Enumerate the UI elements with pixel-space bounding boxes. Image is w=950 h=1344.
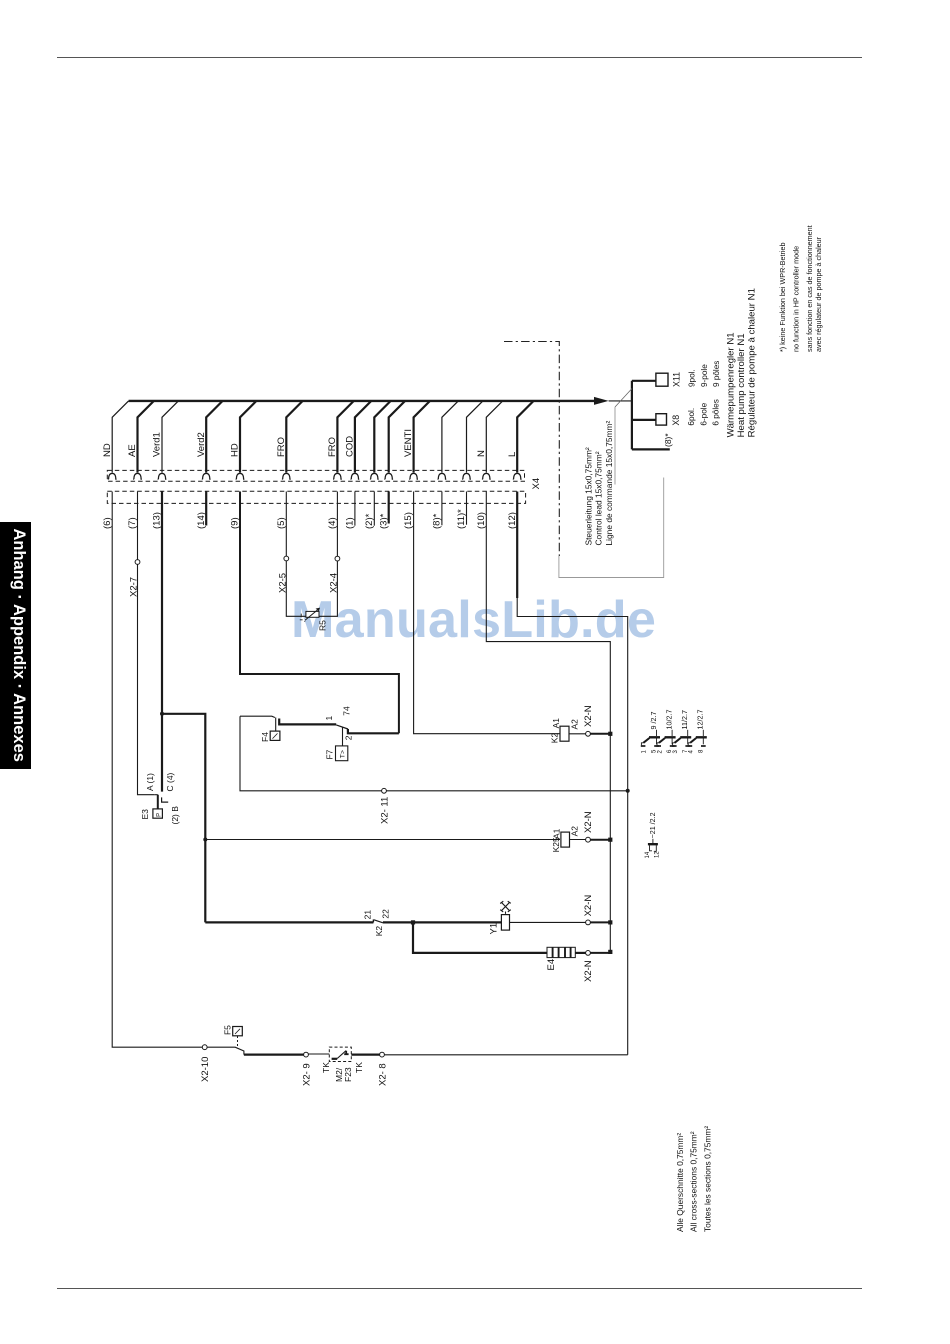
terminal X2-7 [135,560,140,565]
terminal clamp arc (1) [351,473,360,479]
terminal clamp arc (5) [282,473,291,479]
svg-text:X2-N: X2-N [583,895,594,917]
svg-text:ManualsLib.de: ManualsLib.de [291,591,656,649]
junction on wire (13) [160,712,164,716]
svg-text:*) keine Funktion bei WPR-Betr: *) keine Funktion bei WPR-Betrieb [778,243,787,352]
wire (6) from strip down to X2-10 row [112,492,205,1048]
relay coil K2 body [560,726,569,741]
svg-text:Wärmepumpenregler N1: Wärmepumpenregler N1 [726,332,737,437]
svg-text:2: 2 [657,750,663,754]
wire Y1 to X2-N [510,921,586,923]
terminal X2-N (K2) [586,731,591,736]
svg-text:8: 8 [698,749,704,753]
svg-text:1: 1 [324,716,334,721]
fuse F5 body [233,1027,243,1036]
thermostat F7 contact blade [336,725,348,729]
terminal clamp arc (10) [482,473,491,479]
svg-text:10/2.7: 10/2.7 [664,710,673,730]
svg-text:(1): (1) [345,517,356,529]
wire (8)* stub [441,492,443,526]
controller dash-dot boundary [504,342,559,557]
wire (4) above strip with fan diagonal [337,401,353,473]
thick link X2-N Y1 to N feeder [590,921,610,923]
svg-text:Steuerleitung 15x0,75mm²: Steuerleitung 15x0,75mm² [584,447,594,545]
svg-text:C (4): C (4) [165,772,175,791]
svg-text:A2: A2 [569,826,579,837]
wire (12) L thick part [516,492,518,599]
wire K25 coil to X2-N [570,839,586,841]
thermostat F7 body [336,746,348,761]
svg-text:K25: K25 [551,837,561,852]
svg-text:4: 4 [689,750,695,754]
wire (15) above strip with fan diagonal [414,401,430,473]
terminal clamp arc (6) [108,473,117,479]
wire (10) N feeder [486,492,610,952]
svg-text:Verd2: Verd2 [196,432,207,457]
svg-text:F7: F7 [324,749,334,759]
wire (6) above strip with fan diagonal [112,401,128,473]
svg-text:(8)*: (8)* [663,433,673,447]
terminal X2-10 [202,1045,207,1050]
svg-text:Alle Querschnitte 0,75mm²: Alle Querschnitte 0,75mm² [675,1133,685,1232]
wire (2)* above strip with fan diagonal [374,401,390,473]
contact cross-ref 12/2.7 [688,710,707,754]
connector bracket [631,381,633,450]
svg-text:E3: E3 [140,809,150,820]
wire X2-9 to motor box [308,1053,329,1055]
svg-text:AE: AE [127,444,138,457]
svg-text:3: 3 [673,750,679,754]
svg-text:N: N [476,450,487,457]
motor M2/F23 dashed box [329,1047,351,1061]
wire (5) FRO to X2-5 [286,492,306,617]
wire (12) L thin jog and feeder [517,598,628,1055]
wire (14) stub [205,492,207,526]
top rule [57,57,862,59]
wire motor box to X2-8 (thick) [351,1053,379,1055]
wire (1) above strip with fan diagonal [355,401,371,473]
wire X2-10 to F5 step [207,1047,244,1054]
svg-text:E4: E4 [546,959,557,971]
svg-text:9-pole: 9-pole [700,364,709,387]
svg-text:X2- 11: X2- 11 [379,797,390,824]
terminal clamp arc (8)* [438,473,447,479]
terminal clamp arc (2)* [370,473,379,479]
svg-text:22: 22 [381,909,391,919]
svg-text:9pol.: 9pol. [688,369,697,387]
svg-text:12: 12 [655,851,661,858]
wire to X2-11 row [240,716,628,791]
terminal clamp arc (12) [513,473,522,479]
junction K2 on N feeder [608,732,612,736]
svg-text:Régulateur de pompe à chaleur: Régulateur de pompe à chaleur N1 [747,288,758,437]
svg-text:TK: TK [354,1062,364,1073]
terminal X2-N (E4) [586,951,591,956]
wire thin from node to fuse F4 gap [240,716,275,717]
terminal X2-8 [380,1052,385,1057]
valve symbol above Y1 [500,901,511,914]
svg-text:2: 2 [344,735,354,740]
svg-text:FRO: FRO [327,437,338,457]
terminal X2-N (Y1) [586,920,591,925]
svg-text:avec régulateur de pompe à cha: avec régulateur de pompe à chaleur [814,236,823,352]
svg-text:(7): (7) [127,517,138,529]
svg-text:−21 /2.2: −21 /2.2 [648,812,657,838]
svg-text:F4: F4 [260,732,270,742]
svg-text:(11)*: (11)* [456,509,467,529]
contact cross-ref 9 /2.7 [641,712,660,754]
wire (14) above strip with fan diagonal [206,401,222,473]
svg-text:F23: F23 [343,1067,353,1082]
wire (7) from strip to X2-7 and E3 [138,492,155,795]
wire (15) VENTI to K2 coil [414,492,560,734]
resistor R5 arrow [305,608,320,620]
svg-text:Y1: Y1 [489,923,500,935]
solenoid valve Y1 body [501,915,509,931]
svg-text:ND: ND [102,443,113,457]
junction Y1/E4 branch [411,920,415,924]
wire (9) HD down [240,492,399,734]
svg-text:A2: A2 [570,719,580,730]
svg-text:VENTI: VENTI [403,429,414,457]
svg-text:P: P [157,813,163,817]
junction K25 feed tap [203,838,207,842]
wire (11)* above strip with fan diagonal [467,401,483,473]
wire R5 to X2-4 [319,492,337,617]
terminal X2-4 [335,556,340,561]
svg-text:1: 1 [642,750,648,754]
svg-text:Toutes les sections 0,75mm²: Toutes les sections 0,75mm² [702,1126,712,1232]
terminal X2-9 [304,1052,309,1057]
svg-text:12/2.7: 12/2.7 [696,710,705,730]
wire junction to Y1 [413,921,501,923]
svg-text:X2-N: X2-N [583,705,594,727]
svg-text:T>: T> [340,750,347,758]
terminal clamp arc (13) [158,473,167,479]
thick step after F7 contact [348,729,399,733]
resistor R5 body [306,611,319,617]
svg-text:6-pole: 6-pole [699,402,708,425]
wire (13) Verd1 down to junction [161,492,163,792]
branch from (13) junction to vertical feeder [162,714,205,923]
svg-text:(6): (6) [102,517,113,529]
thick link X2-N K25 to N feeder [590,839,610,841]
svg-text:9 pôles: 9 pôles [712,361,721,387]
wire E4 to X2-N [575,952,585,954]
terminal X2-11 [382,788,387,793]
thick link F4 to F7 contact [279,719,336,725]
svg-text:6pol.: 6pol. [687,408,696,426]
wire (3)* stub [388,492,390,524]
wire (9) above strip with fan diagonal [240,401,256,473]
branch down to E4 row [413,922,547,953]
stub to X8 [632,419,656,421]
heater E4 body [547,947,575,957]
contact cross-ref 11/2.7 [672,710,691,753]
svg-text:(2) B: (2) B [170,806,180,825]
svg-text:X2-N: X2-N [583,811,594,833]
svg-text:(4): (4) [327,517,338,529]
svg-text:sans fonction en cas de foncti: sans fonction en cas de fonctionnement [805,225,814,352]
terminal clamp arc (7) [133,473,142,479]
svg-text:F5: F5 [222,1025,232,1035]
wire K25 feed [205,839,560,841]
svg-text:K2: K2 [550,733,560,744]
svg-text:X8: X8 [671,415,681,426]
terminal strip lower dashed box [107,491,525,503]
svg-text:FRO: FRO [276,437,287,457]
svg-text:X2- 9: X2- 9 [301,1063,312,1086]
junction X2-11 row on L feeder [626,789,630,793]
svg-text:X11: X11 [672,372,682,387]
resistor R5 dashes [300,614,305,622]
svg-text:(8)*: (8)* [432,513,443,529]
collector bus (thick) to heat pump controller [129,400,594,402]
contact cross-ref 21 /2.2 (K25) [645,812,661,858]
wire K2 coil to X2-N [569,733,586,735]
pressure switch E3 body [153,809,163,818]
svg-text:A1: A1 [551,718,561,729]
bus arrowhead [594,397,609,405]
svg-text:Control lead 15x0,75mm²: Control lead 15x0,75mm² [594,451,604,545]
terminal clamp arc (9) [236,473,245,479]
fuse F5 dashed pigtail [237,1036,239,1047]
svg-text:X2-N: X2-N [583,960,594,982]
wire X2-8 to L feeder corner [384,1054,627,1056]
wire X2-7 corner to E3 pigtail [154,794,158,796]
terminal clamp arc (14) [202,473,211,479]
K2 contact 21-22 [372,919,374,922]
bottom rule [57,1288,862,1290]
svg-text:74: 74 [342,706,352,716]
terminal clamp arc (3)* [384,473,393,479]
fuse F4 pigtail [275,718,277,732]
svg-text:X2- 8: X2- 8 [377,1063,388,1086]
terminal X2-5 [284,556,289,561]
wire (2)* stub [373,492,375,526]
wire feeder to K2 contact row [205,921,373,923]
relay coil K25 body [561,832,570,847]
wire (12) above strip with fan diagonal [517,401,533,473]
svg-text:X2-10: X2-10 [200,1057,211,1082]
wire (11)* stub [466,492,468,525]
svg-text:6 pôles: 6 pôles [711,399,720,425]
svg-text:(15): (15) [403,512,414,529]
F7 pigtail [342,727,344,746]
fuse F4 body [270,731,280,740]
svg-text:X2-4: X2-4 [329,573,340,593]
svg-text:X2-7: X2-7 [129,577,140,597]
svg-text:All cross-sections 0,75mm²: All cross-sections 0,75mm² [689,1131,699,1232]
wire (8)* above strip with fan diagonal [442,401,458,473]
svg-text:X2-5: X2-5 [277,573,288,593]
motor M2/F23 thermal contact [332,1058,338,1060]
terminal clamp arc (4) [333,473,342,479]
terminal X2-N (K25) [586,837,591,842]
terminal strip X4 upper dashed box [107,470,524,481]
wire (5) above strip with fan diagonal [286,401,302,473]
svg-text:K2: K2 [374,926,384,937]
junction Y1 on N feeder [608,920,612,924]
svg-text:21: 21 [363,910,373,920]
svg-text:(2)*: (2)* [364,513,375,529]
svg-text:(5): (5) [276,517,287,529]
wire (10) above strip with fan diagonal [486,401,502,473]
sidebar tab Anhang Appendix Annexes [0,522,31,769]
svg-text:COD: COD [345,436,356,457]
wire (13) above strip with fan diagonal [162,401,178,473]
stub (8)* [632,448,670,450]
thick link X2-N to N feeder [590,733,610,735]
stub to X11 [632,380,656,382]
terminal clamp arc (11)* [462,473,471,479]
wire contact to junction [383,921,413,923]
wire (3)* above strip with fan diagonal [389,401,405,473]
svg-text:no function in HP controller m: no function in HP controller mode [791,246,800,352]
svg-text:Heat pump controller N1: Heat pump controller N1 [736,333,747,437]
wire F5 to X2-9 (thick) [244,1053,304,1055]
svg-text:(10): (10) [476,512,487,529]
svg-text:11/2.7: 11/2.7 [680,710,689,729]
wire (1) stub [354,492,356,526]
svg-text:14: 14 [645,851,651,858]
svg-text:X4: X4 [531,478,542,490]
svg-text:9 /2.7: 9 /2.7 [649,712,658,730]
svg-text:R5: R5 [318,620,328,631]
terminal clamp arc (15) [409,473,418,479]
svg-text:A (1): A (1) [145,773,155,791]
svg-text:HD: HD [230,443,241,457]
connector X8 box [656,414,667,425]
connector X11 box [656,373,668,386]
svg-text:Anhang · Appendix · Annexes: Anhang · Appendix · Annexes [10,529,28,762]
svg-text:(9): (9) [230,517,241,529]
stub B (2) [162,797,169,802]
leader line control lead [615,389,632,408]
svg-text:Ligne de commande 15x0,75mm²: Ligne de commande 15x0,75mm² [604,421,614,546]
svg-text:TK: TK [321,1062,331,1073]
contact cross-ref 10/2.7 [656,710,675,754]
junction K25 on N feeder [608,838,612,842]
wire (7) above strip with fan diagonal [138,401,154,473]
thick link X2-N E4 to N feeder end [590,952,610,954]
svg-text:Verd1: Verd1 [152,432,163,457]
svg-text:L: L [507,452,518,457]
